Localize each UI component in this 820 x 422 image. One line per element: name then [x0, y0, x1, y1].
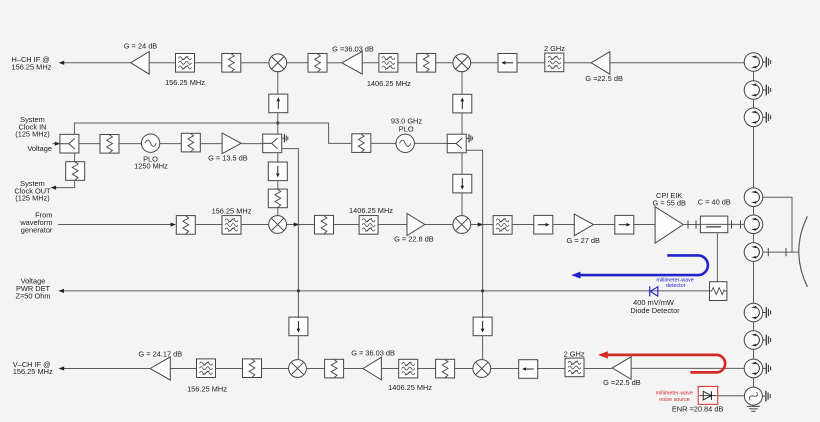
wire Voltage input arrow — [53, 142, 61, 146]
svg-text:G = 22.8 dB: G = 22.8 dB — [394, 235, 434, 244]
power splitter C — [447, 134, 466, 153]
amplifier G=24.17dB — [138, 350, 182, 381]
wire — [149, 62, 175, 64]
amplifier G=13.5dB — [208, 133, 248, 162]
attenuator — [315, 215, 334, 234]
millimeter-wave detector blue arrow — [571, 255, 708, 278]
svg-text:1406.25 MHz: 1406.25 MHz — [388, 383, 432, 392]
mixer MX3 — [269, 216, 287, 234]
svg-text:G =36.03 dB: G =36.03 dB — [332, 45, 374, 54]
svg-text:1250 MHz: 1250 MHz — [134, 162, 168, 171]
junction dot LO tap right — [481, 289, 484, 292]
wire — [753, 99, 755, 108]
wire — [753, 71, 755, 81]
wire — [378, 224, 407, 226]
wire PWR DET line with arrow — [58, 289, 709, 293]
wire — [753, 234, 755, 243]
wire with junction arrow — [471, 223, 484, 227]
svg-text:G = 27 dB: G = 27 dB — [566, 236, 600, 245]
junction dot LO tap left — [297, 289, 300, 292]
node System Clock OUT label — [14, 179, 51, 202]
mixer MX5 — [289, 360, 307, 378]
wire — [381, 368, 398, 370]
mixer MX4 — [453, 216, 471, 234]
node V-CH IF output label — [13, 360, 53, 376]
bandpass filter FL2 1406.25 MHz — [367, 54, 411, 88]
amplifier U1 CPI EIK G=55dB — [652, 191, 686, 243]
attenuator — [436, 359, 455, 378]
mixer MX1 — [269, 54, 287, 72]
bandpass filter 1406.25 MHz V — [388, 359, 432, 392]
attenuator clock out — [66, 162, 85, 181]
wire — [753, 378, 755, 387]
termination CR7 — [763, 307, 771, 318]
wire — [517, 62, 545, 64]
attenuator AT1 — [222, 54, 241, 73]
svg-text:G =22.5 dB: G =22.5 dB — [585, 74, 623, 83]
bandpass filter 2 GHz V — [564, 349, 585, 376]
termination CR8 — [763, 335, 771, 346]
detector load resistor box — [710, 282, 727, 301]
power splitter A — [60, 134, 79, 153]
wire — [327, 62, 342, 64]
bandpass filter W-band — [493, 216, 512, 235]
wire splitter B right port down to V chain — [282, 149, 299, 317]
wire — [753, 207, 755, 216]
amplifier A2 G=36.03dB — [332, 45, 374, 75]
amplifier G=36.03dB V — [351, 349, 395, 380]
wire to System Clock OUT with arrow — [51, 180, 75, 189]
isolator left arrow — [498, 54, 517, 73]
wire — [753, 322, 755, 331]
circulator CR1 — [744, 53, 763, 72]
wire — [634, 224, 655, 226]
svg-text:noise source: noise source — [659, 397, 690, 403]
circulator CR5 — [744, 215, 763, 234]
wire coupler tap down to detector load — [716, 233, 718, 282]
svg-text:PLO: PLO — [399, 125, 414, 134]
svg-text:Voltage: Voltage — [27, 144, 52, 153]
circulator CR9 — [744, 359, 763, 378]
svg-text:generator: generator — [21, 225, 53, 234]
svg-text:G = 36.03 dB: G = 36.03 dB — [351, 349, 395, 358]
wire with junction arrow — [287, 223, 300, 227]
wire splitter C right port down to V chain — [466, 150, 482, 317]
svg-text:Z=50 Ohm: Z=50 Ohm — [15, 292, 50, 301]
wire with waveguide flanges — [728, 220, 744, 228]
wire long down — [753, 261, 755, 303]
wire — [436, 62, 453, 64]
bandpass filter 1406.25 MHz mid — [349, 206, 393, 234]
circulator CR7 — [744, 303, 763, 322]
wire — [334, 224, 360, 226]
node From waveform generator label — [19, 210, 53, 234]
noise source generator — [744, 387, 762, 405]
noise source diode in red box — [698, 386, 718, 404]
isolator up arrow below MX1 — [269, 94, 288, 113]
attenuator mid chain — [176, 216, 195, 235]
svg-text:156.25 MHz: 156.25 MHz — [12, 63, 52, 72]
wire long down — [753, 127, 755, 188]
wire reference line to 93GHz chain — [278, 123, 351, 143]
bandpass filter FL1 156.25 MHz — [165, 54, 205, 88]
wire — [170, 368, 196, 370]
wire — [241, 143, 263, 145]
wire — [298, 224, 315, 226]
circulator CR3 — [744, 108, 763, 127]
mixer MX2 — [453, 54, 471, 72]
wire — [415, 142, 448, 144]
isolator down arrow V right — [473, 317, 492, 336]
wire — [362, 62, 378, 64]
svg-text:ENR =20.84 dB: ENR =20.84 dB — [672, 405, 724, 414]
wire to circulator column — [631, 367, 744, 369]
port marker splitter B — [282, 134, 288, 142]
wire — [418, 368, 436, 370]
wire — [216, 368, 243, 370]
wire — [277, 181, 279, 190]
wire with waveguide flanges — [683, 220, 700, 228]
wire CR4 right corner to antenna line — [763, 197, 792, 252]
wire splitter A bottom — [74, 153, 76, 162]
node H-CH IF output label — [12, 55, 52, 71]
amplifier A1 G=24dB — [124, 42, 158, 75]
amplifier G=27dB — [566, 214, 600, 245]
oscillator PLO 93.0 GHz — [391, 117, 423, 153]
bandpass filter 156.25 MHz V — [187, 359, 227, 394]
wire — [241, 62, 269, 64]
wire — [564, 62, 591, 64]
wire — [195, 62, 222, 64]
ground — [747, 405, 760, 411]
wire — [195, 224, 222, 226]
svg-text:156.25 MHz: 156.25 MHz — [13, 367, 53, 376]
attenuator — [325, 359, 344, 378]
attenuator — [100, 135, 119, 154]
millimeter-wave noise source red arrow — [598, 351, 725, 372]
junction dot node LO reference — [276, 121, 279, 124]
wire — [119, 143, 141, 145]
power splitter B — [263, 134, 282, 153]
wire — [160, 143, 181, 145]
wire waveform input with arrow — [58, 223, 176, 227]
wire H-CH IF output with arrow — [59, 61, 131, 65]
wire to circulator column — [610, 62, 744, 64]
port marker splitter C — [466, 134, 472, 142]
directional coupler C=40dB — [698, 198, 731, 233]
svg-text:Diode Detector: Diode Detector — [630, 306, 680, 315]
wire isolator to splitter B — [277, 113, 279, 135]
wire — [287, 62, 308, 64]
amplifier G=22.5dB V — [603, 357, 641, 387]
wire — [455, 368, 473, 370]
label millimeter-wave noise source red — [656, 390, 693, 403]
wire antenna feed with flanges — [763, 248, 799, 256]
wire to mixer MX3 — [277, 208, 279, 216]
attenuator — [181, 133, 200, 152]
bandpass filter FL3 2 GHz — [544, 44, 565, 72]
wire to mixer MX4 — [461, 193, 463, 216]
circulator CR4 — [744, 188, 763, 207]
svg-text:detector: detector — [666, 283, 686, 289]
mixer MX6 — [473, 360, 491, 378]
svg-text:(125 MHz): (125 MHz) — [15, 194, 50, 203]
wire — [593, 224, 615, 226]
oscillator PLO 1250 MHz — [134, 134, 168, 171]
termination CR9 — [763, 363, 771, 374]
wire — [371, 142, 396, 144]
amplifier A3 G=22.5dB — [585, 52, 623, 84]
node System Clock IN label — [15, 115, 50, 138]
wire — [512, 224, 534, 226]
svg-text:G =22.5 dB: G =22.5 dB — [603, 378, 641, 387]
svg-text:G = 55 dB: G = 55 dB — [652, 199, 686, 208]
termination noise source — [762, 391, 770, 402]
wire — [262, 368, 289, 370]
isolator up arrow below MX2 — [453, 94, 472, 113]
attenuator — [243, 359, 262, 378]
attenuator LO drop — [268, 189, 287, 208]
svg-text:156.25 MHz: 156.25 MHz — [165, 78, 205, 87]
wire isolator to mixer MX6 — [482, 317, 484, 359]
wire isolator to splitter C — [461, 113, 463, 134]
node Voltage PWR DET label — [15, 277, 50, 301]
attenuator AT2 — [308, 54, 327, 73]
svg-text:G = 24 dB: G = 24 dB — [124, 42, 158, 51]
wire — [425, 224, 453, 226]
wire — [491, 368, 519, 370]
wire — [483, 224, 493, 226]
svg-text:millimeter-wave: millimeter-wave — [656, 390, 693, 396]
diode detector blue diode — [650, 286, 658, 296]
isolator down arrow — [268, 162, 287, 181]
label 400 mV/mW Diode Detector — [630, 298, 680, 315]
circulator CR8 — [744, 331, 763, 350]
wire — [344, 368, 363, 370]
svg-text:156.25 MHz: 156.25 MHz — [212, 207, 252, 216]
svg-text:1406.25 MHz: 1406.25 MHz — [349, 206, 393, 215]
wire isolator to mixer MX5 — [297, 317, 299, 359]
wire mixer MX1 to isolator — [277, 72, 279, 94]
termination CR1 — [763, 57, 771, 68]
wire — [553, 224, 575, 226]
attenuator 93GHz reference — [352, 134, 371, 153]
svg-text:156.25 MHz: 156.25 MHz — [187, 385, 227, 394]
wire mixer MX2 to isolator — [461, 72, 463, 95]
wire V-CH IF output with arrow — [59, 366, 151, 370]
svg-text:2 GHz: 2 GHz — [564, 349, 585, 358]
circulator CR2 — [744, 81, 763, 100]
amplifier G=22.8dB — [394, 214, 434, 244]
isolator right arrow — [615, 215, 634, 234]
antenna reflector arc — [799, 216, 808, 286]
isolator right arrow — [534, 215, 553, 234]
circulator CR6 — [744, 243, 763, 262]
wire — [584, 368, 612, 370]
isolator down arrow — [453, 174, 472, 193]
svg-text:C = 40 dB: C = 40 dB — [698, 198, 731, 207]
wire noise diode to source — [718, 395, 745, 397]
wire — [241, 224, 269, 226]
svg-text:G = 24.17 dB: G = 24.17 dB — [138, 350, 182, 359]
svg-text:1406.25 MHz: 1406.25 MHz — [367, 79, 411, 88]
termination CR3 — [763, 112, 771, 123]
svg-text:G = 13.5 dB: G = 13.5 dB — [208, 153, 248, 162]
svg-text:(125 MHz): (125 MHz) — [15, 130, 50, 139]
wire — [79, 143, 101, 145]
bandpass filter 156.25 MHz mid — [212, 207, 252, 235]
wire splitter B bottom — [277, 153, 279, 163]
termination CR2 — [763, 85, 771, 96]
isolator down arrow V left — [289, 317, 308, 336]
wire splitter C bottom — [461, 153, 463, 175]
attenuator AT3 — [417, 54, 436, 73]
wire — [200, 143, 222, 145]
wire — [538, 368, 565, 370]
wire — [753, 349, 755, 359]
wire — [471, 62, 498, 64]
svg-text:2 GHz: 2 GHz — [544, 44, 565, 53]
isolator left arrow V — [519, 360, 538, 379]
wire — [306, 368, 324, 370]
label millimeter-wave detector blue — [656, 277, 693, 289]
wire — [398, 62, 417, 64]
wire splitter A top to reference line — [74, 123, 277, 134]
